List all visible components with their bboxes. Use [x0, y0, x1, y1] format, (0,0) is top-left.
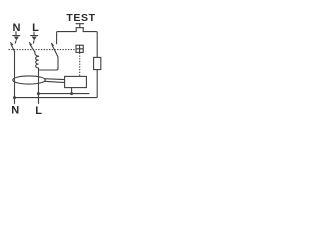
wire resistor down to N bottom line — [15, 70, 98, 98]
wire relay to node — [71, 88, 73, 94]
primary winding L pole — [36, 56, 39, 68]
node on N wire — [13, 96, 16, 99]
wire L bottom line — [38, 93, 89, 95]
switch contact L pole — [29, 41, 34, 52]
svg-text:N: N — [11, 105, 19, 117]
wire button right to resistor — [83, 32, 97, 58]
terminal N top — [13, 32, 20, 41]
secondary winding leads — [44, 78, 64, 81]
trip relay — [65, 76, 87, 87]
push button TEST — [76, 24, 84, 32]
core current transformer — [13, 76, 46, 84]
wire L pole jog to winding — [35, 52, 39, 57]
mechanism latch — [76, 45, 83, 52]
resistor R test — [94, 57, 101, 69]
node on L wire — [37, 92, 40, 95]
wire test pole up to button — [57, 32, 76, 44]
terminal L top — [31, 32, 38, 40]
switch contact test pole — [51, 43, 58, 57]
svg-text:TEST: TEST — [66, 12, 95, 24]
linkage dashed vertical to relay — [79, 53, 81, 76]
svg-text:L: L — [32, 22, 39, 34]
wire test branch tap — [39, 57, 59, 70]
svg-text:L: L — [35, 105, 42, 117]
wire L pole down through core — [38, 68, 40, 104]
linkage dashed horizontal — [9, 49, 76, 51]
wire N pole down through core — [14, 52, 16, 104]
node relay junction — [70, 92, 73, 95]
switch contact N pole — [11, 41, 16, 52]
